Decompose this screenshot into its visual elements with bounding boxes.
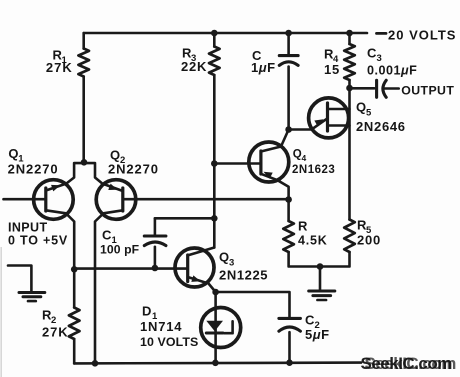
svg-text:2N2646: 2N2646 bbox=[356, 119, 406, 134]
wire minus sign of -20 VOLTS bbox=[377, 32, 387, 35]
transistor Q5 2N2646 (UJT) bbox=[289, 98, 350, 138]
wire C3 branch from node bbox=[350, 87, 375, 90]
resistor R3 bbox=[209, 47, 220, 76]
wire R2 bottom lead bbox=[73, 339, 76, 363]
svg-text:15: 15 bbox=[324, 62, 340, 77]
node R R5 ground bbox=[317, 263, 324, 270]
svg-text:100 pF: 100 pF bbox=[100, 243, 139, 257]
wire Q5 base column / R5 top lead bbox=[348, 88, 351, 220]
wire output stub bbox=[384, 87, 398, 90]
resistor R1 bbox=[78, 49, 89, 77]
wire bottom rail bbox=[74, 361, 361, 364]
transistor Q2 2N2270 bbox=[84, 163, 289, 363]
node Q2 base Q4 emitter R top bbox=[285, 196, 292, 203]
svg-text:SeekIC.com: SeekIC.com bbox=[365, 354, 457, 373]
wire scan edge artifact bbox=[0, 247, 2, 377]
node D1 bottom rail bbox=[212, 360, 219, 367]
svg-text:C: C bbox=[305, 313, 315, 328]
svg-text:4.5K: 4.5K bbox=[298, 234, 328, 248]
node C1 top tap bbox=[211, 215, 218, 222]
svg-text:C: C bbox=[367, 46, 377, 61]
svg-text:Q: Q bbox=[293, 149, 302, 161]
svg-text:4: 4 bbox=[302, 153, 307, 163]
node R3 top bbox=[211, 30, 218, 37]
svg-text:20 VOLTS: 20 VOLTS bbox=[388, 28, 456, 43]
svg-text:INPUT: INPUT bbox=[8, 221, 48, 235]
svg-text:Q: Q bbox=[356, 100, 366, 115]
ground at input bbox=[8, 266, 45, 302]
wire R4 bottom lead bbox=[348, 80, 351, 88]
transistor Q3 2N1225 bbox=[74, 248, 215, 293]
svg-text:3: 3 bbox=[377, 53, 382, 64]
wire R3 bottom lead down to Q3 collector bbox=[213, 75, 216, 248]
svg-text:1N714: 1N714 bbox=[140, 319, 182, 334]
node C bottom Q4 collector Q5 emitter bbox=[285, 126, 292, 133]
svg-text:27K: 27K bbox=[46, 60, 73, 75]
svg-text:D: D bbox=[142, 304, 151, 319]
wire C bottom lead bbox=[287, 67, 290, 130]
node R4 top bbox=[346, 30, 353, 37]
svg-text:C: C bbox=[102, 228, 112, 243]
svg-text:22K: 22K bbox=[181, 59, 207, 74]
resistor R5 bbox=[344, 220, 355, 253]
capacitor C3 0.001uF bbox=[377, 80, 387, 97]
wire C top lead bbox=[287, 33, 290, 54]
ground below R and R5 bbox=[309, 267, 335, 301]
svg-text:5: 5 bbox=[366, 108, 372, 119]
svg-text:R: R bbox=[298, 219, 308, 234]
wire R 4.5K top lead bbox=[287, 200, 290, 222]
svg-text:0.001μF: 0.001μF bbox=[367, 64, 417, 78]
wire R1 bottom lead bbox=[82, 77, 85, 163]
svg-text:2N2270: 2N2270 bbox=[108, 162, 159, 177]
svg-text:2N2270: 2N2270 bbox=[8, 161, 59, 176]
node Q4 base tap bbox=[211, 160, 218, 167]
resistor R 4.5K bbox=[283, 221, 294, 252]
wire top rail -20V bbox=[84, 32, 367, 35]
node C top bbox=[285, 30, 292, 37]
svg-text:2N1623: 2N1623 bbox=[292, 164, 335, 176]
node Q2 bottom rail bbox=[92, 360, 99, 367]
resistor R2 bbox=[69, 308, 80, 340]
svg-text:1μF: 1μF bbox=[251, 60, 276, 75]
node R4 bottom C3 Q5 bases bbox=[346, 85, 353, 92]
capacitor C1 100pF bbox=[144, 218, 214, 268]
svg-text:OUTPUT: OUTPUT bbox=[401, 84, 454, 98]
wire R4 top lead bbox=[348, 33, 351, 44]
node Q1 emitter R2 top bbox=[71, 266, 78, 273]
capacitor C 1uF bbox=[279, 56, 298, 66]
zener diode D1 1N714 bbox=[201, 292, 241, 363]
wire R2 top lead bbox=[73, 269, 76, 307]
capacitor C2 5uF bbox=[216, 292, 301, 363]
transistor Q1 2N2270 bbox=[4, 163, 85, 269]
node Q1 Q2 collectors R1 bbox=[81, 159, 88, 166]
svg-text:Q: Q bbox=[219, 250, 229, 265]
node C1 bottom on Q3 base wire bbox=[152, 265, 159, 272]
svg-text:0 TO +5V: 0 TO +5V bbox=[8, 234, 68, 248]
svg-text:5μF: 5μF bbox=[305, 327, 330, 342]
resistor R4 bbox=[344, 44, 355, 80]
svg-text:10 VOLTS: 10 VOLTS bbox=[140, 335, 198, 349]
svg-text:200: 200 bbox=[357, 233, 381, 248]
svg-text:Q: Q bbox=[110, 148, 120, 163]
wire R1 top lead bbox=[82, 33, 85, 49]
transistor Q4 2N1623 bbox=[214, 130, 288, 200]
svg-text:27K: 27K bbox=[42, 325, 69, 340]
wire R5 bottom lead bbox=[320, 252, 350, 267]
wire R3 top lead bbox=[213, 33, 216, 47]
node C2 bottom rail bbox=[286, 359, 293, 366]
wire R 4.5K bottom lead to ground node bbox=[289, 252, 320, 267]
svg-text:Q: Q bbox=[8, 146, 18, 161]
node Q3 emitter D1 C2 bbox=[212, 289, 219, 296]
svg-text:2N1225: 2N1225 bbox=[219, 268, 268, 283]
